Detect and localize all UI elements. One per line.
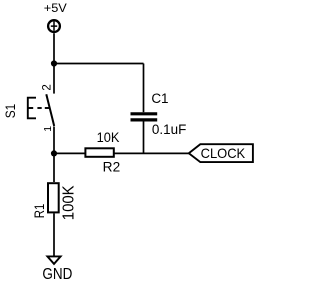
svg-text:R2: R2 bbox=[103, 160, 121, 175]
svg-text:CLOCK: CLOCK bbox=[201, 145, 246, 161]
svg-text:R1: R1 bbox=[31, 204, 47, 219]
svg-text:GND: GND bbox=[42, 266, 72, 282]
svg-text:1: 1 bbox=[42, 126, 54, 132]
svg-text:S1: S1 bbox=[2, 104, 18, 119]
svg-text:10K: 10K bbox=[97, 130, 120, 145]
svg-text:+5V: +5V bbox=[44, 3, 67, 15]
svg-text:100K: 100K bbox=[61, 185, 78, 220]
svg-text:C1: C1 bbox=[151, 91, 168, 106]
svg-text:0.1uF: 0.1uF bbox=[152, 122, 186, 137]
svg-text:2: 2 bbox=[42, 84, 54, 90]
